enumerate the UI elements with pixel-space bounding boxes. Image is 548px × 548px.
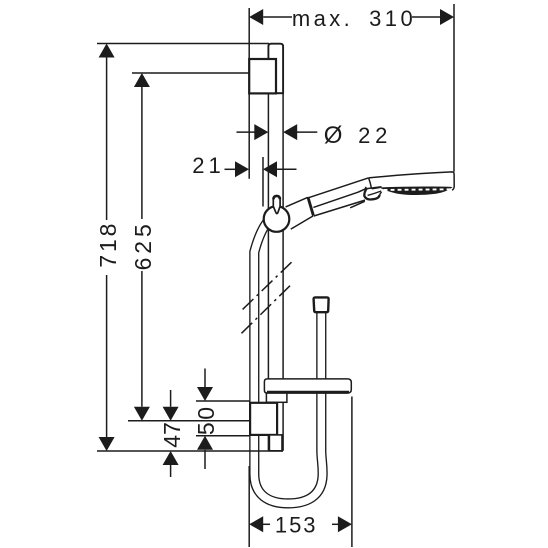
dimension 625 — [132, 73, 249, 421]
head underside edge — [350, 201, 365, 208]
lower wall bracket — [250, 403, 277, 435]
svg-text:625: 625 — [130, 220, 156, 270]
svg-text:21: 21 — [192, 153, 224, 178]
dimension 718 — [97, 44, 269, 452]
spray nozzles — [384, 188, 451, 191]
hand shower handle cone — [286, 197, 314, 229]
slider lock pin — [273, 196, 280, 214]
handle ring band — [308, 197, 314, 216]
svg-text:718: 718 — [95, 221, 121, 268]
wall reference extension line (top) — [248, 8, 250, 179]
dimension O 22 — [237, 124, 318, 140]
slider roller — [264, 206, 290, 232]
handle body lines — [309, 178, 368, 216]
shower bar tube — [268, 44, 283, 451]
dimension 50 — [196, 369, 250, 470]
diverter lever — [364, 188, 379, 199]
dimension 47 — [97, 390, 283, 477]
dimension 21 — [225, 161, 297, 177]
svg-text:47: 47 — [159, 422, 185, 448]
shower hose — [254, 218, 322, 503]
shower head — [350, 172, 454, 208]
svg-text:Ø 22: Ø 22 — [324, 122, 392, 149]
svg-text:153: 153 — [275, 512, 318, 537]
bar foot — [269, 435, 282, 451]
shelf step piece — [266, 393, 287, 402]
svg-text:50: 50 — [193, 405, 219, 436]
spray face band — [380, 186, 453, 195]
soap dish shelf — [264, 379, 351, 393]
upper wall bracket — [249, 59, 276, 93]
dimension labels — [95, 6, 416, 537]
extension line for 21 dimension — [262, 157, 264, 207]
dimension 153 — [249, 397, 352, 548]
svg-text:max. 310: max. 310 — [292, 6, 416, 31]
break lines (dash-dot) — [242, 262, 292, 333]
hose connector nut — [314, 297, 329, 312]
dimension max. 310 — [249, 4, 454, 172]
